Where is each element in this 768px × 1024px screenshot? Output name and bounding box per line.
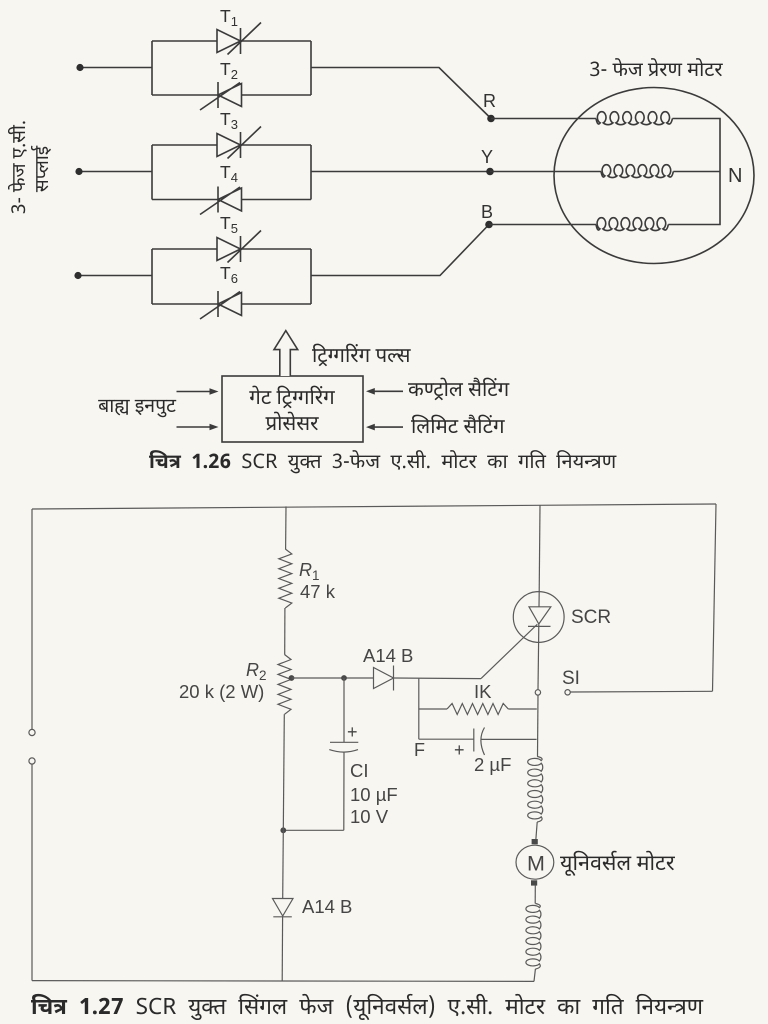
capacitor C2 2uF — [419, 728, 537, 756]
svg-text:R1: R1 — [299, 560, 320, 583]
resistor IK — [419, 708, 447, 710]
svg-text:सप्लाई: सप्लाई — [30, 145, 56, 192]
thyristor T1 — [217, 23, 261, 55]
wire junction to diode D2 — [282, 830, 285, 898]
svg-text:A14 B: A14 B — [363, 645, 413, 666]
wire input lead row 3 — [78, 275, 152, 277]
wire phase B into motor — [489, 224, 596, 226]
wire left border upper — [31, 509, 33, 729]
wire top to SCR anode — [538, 505, 541, 591]
switch SI contact left — [535, 690, 540, 695]
svg-text:T2: T2 — [220, 59, 238, 82]
potentiometer R2 20k 2W — [278, 655, 291, 715]
svg-text:T5: T5 — [220, 213, 238, 236]
wire row2 to node Y — [311, 171, 490, 173]
wire gate network left side — [418, 679, 420, 740]
svg-text:3- फेज ए.सी.: 3- फेज ए.सी. — [7, 120, 33, 214]
motor body circle — [554, 88, 754, 264]
node open terminal upper — [29, 729, 35, 735]
wire coil Y to neutral — [673, 171, 720, 173]
inductor field coil lower — [526, 904, 541, 970]
wire coil to bottom border — [534, 969, 535, 981]
node R — [487, 115, 495, 123]
wire phase R into motor — [491, 118, 596, 120]
switch SI contact right — [565, 690, 570, 695]
arrow external input 1 — [177, 391, 212, 393]
wire top border fig 1.27 — [32, 504, 716, 509]
triggering pulse hollow arrow — [274, 331, 298, 376]
inductor field coil upper — [528, 757, 543, 823]
node open terminal lower — [29, 758, 35, 764]
svg-text:चित्र 1.27 SCR युक्त सिंगल फेज: चित्र 1.27 SCR युक्त सिंगल फेज (यूनिवर्स… — [31, 993, 704, 1024]
wire anti-parallel box row 2 — [152, 145, 311, 200]
svg-text:B: B — [481, 202, 493, 222]
motor brush lower — [531, 880, 537, 885]
wire anti-parallel box row 1 — [152, 41, 311, 95]
thyristor T6 — [200, 291, 242, 319]
node R2 wiper junction — [289, 675, 295, 681]
svg-text:T6: T6 — [220, 263, 238, 286]
svg-text:N: N — [728, 165, 742, 187]
svg-text:T1: T1 — [220, 6, 238, 29]
wire cathode continues — [537, 695, 540, 757]
svg-text:A14 B: A14 B — [302, 896, 352, 917]
svg-text:10 V: 10 V — [350, 806, 389, 827]
node Y — [486, 168, 494, 176]
thyristor T3 — [217, 127, 261, 159]
node CI branch junction — [341, 675, 347, 681]
thyristor T4 — [200, 187, 242, 215]
wire input lead row 1 — [80, 67, 152, 69]
svg-text:M: M — [527, 852, 545, 876]
svg-text:T4: T4 — [220, 162, 238, 185]
wire top to R1 — [285, 506, 287, 549]
svg-text:CI: CI — [350, 760, 369, 781]
svg-text:20 k (2 W): 20 k (2 W) — [179, 681, 264, 702]
thyristor T5 — [217, 231, 261, 263]
svg-text:यूनिवर्सल मोटर: यूनिवर्सल मोटर — [560, 850, 676, 879]
svg-text:R: R — [483, 91, 496, 111]
svg-text:10 µF: 10 µF — [350, 784, 398, 805]
svg-text:SCR: SCR — [571, 607, 611, 628]
wire D2 to bottom border — [281, 917, 283, 981]
svg-text:R2: R2 — [246, 660, 267, 683]
capacitor CI 10uF — [329, 742, 358, 830]
svg-text:चित्र 1.26 SCR युक्त 3-फेज ए.स: चित्र 1.26 SCR युक्त 3-फेज ए.सी. मोटर का… — [149, 450, 617, 477]
wire row3 to node B — [311, 225, 489, 276]
arrow control setting — [373, 390, 403, 392]
winding coil phase R — [596, 112, 672, 125]
wire right border — [713, 504, 717, 691]
wire coil R to neutral — [668, 119, 720, 225]
svg-text:+: + — [347, 722, 358, 742]
wire R1 to R2 — [284, 608, 286, 655]
wire motor to coil lower — [534, 885, 536, 904]
svg-text:+: + — [454, 740, 465, 760]
svg-text:प्रोसेसर: प्रोसेसर — [265, 411, 319, 439]
wire R2 to diode D1 — [292, 677, 374, 679]
diode D1 A14B — [374, 666, 394, 691]
svg-text:लिमिट सैटिंग: लिमिट सैटिंग — [411, 414, 505, 442]
wire SI to right border — [570, 690, 712, 693]
node CI return junction — [280, 827, 286, 833]
winding coil phase Y — [601, 165, 673, 178]
wire SCR gate lead — [481, 624, 537, 678]
wire left border lower — [31, 764, 33, 980]
node input terminal 3 — [74, 272, 81, 279]
winding coil phase B — [596, 218, 668, 231]
svg-text:Y: Y — [481, 147, 493, 167]
wire CI to R branch — [283, 829, 344, 831]
arrow limit setting — [373, 426, 403, 428]
svg-text:3- फेज प्रेरण मोटर: 3- फेज प्रेरण मोटर — [589, 58, 723, 85]
arrow external input 2 — [177, 426, 212, 428]
svg-text:IK: IK — [474, 681, 492, 702]
svg-text:47 k: 47 k — [300, 581, 336, 602]
SCR thyristor — [513, 592, 564, 643]
svg-text:बाह्य इनपुट: बाह्य इनपुट — [98, 395, 177, 420]
svg-text:कण्ट्रोल सैटिंग: कण्ट्रोल सैटिंग — [408, 377, 510, 405]
svg-text:गेट ट्रिग्गरिंग: गेट ट्रिग्गरिंग — [249, 385, 335, 413]
svg-text:F: F — [414, 740, 425, 760]
node input terminal 2 — [75, 168, 82, 175]
wire D1 to gate junction — [394, 677, 482, 680]
wire junction to CI — [343, 678, 345, 742]
svg-text:SI: SI — [562, 668, 580, 689]
svg-text:ट्रिग्गरिंग पल्स: ट्रिग्गरिंग पल्स — [312, 343, 412, 371]
motor brush upper — [532, 839, 538, 844]
wire phase Y into motor — [490, 171, 601, 173]
wire bottom border — [32, 980, 534, 983]
svg-text:2 µF: 2 µF — [474, 754, 511, 775]
diode D2 A14B — [273, 899, 294, 917]
motor M universal — [516, 845, 554, 879]
wire input lead row 2 — [79, 171, 152, 173]
wire row1 to node R — [311, 68, 491, 119]
wire anti-parallel box row 3 — [152, 249, 311, 304]
svg-text:T3: T3 — [220, 109, 238, 132]
wire coil to motor — [536, 822, 537, 839]
resistor R1 47k — [279, 549, 292, 608]
gate triggering processor block U1 — [222, 376, 363, 442]
node B — [485, 221, 493, 229]
node input terminal 1 — [76, 64, 83, 71]
wire SCR cathode down — [537, 642, 540, 689]
thyristor T2 — [200, 82, 242, 110]
wire R2 bottom to junction — [283, 714, 284, 830]
